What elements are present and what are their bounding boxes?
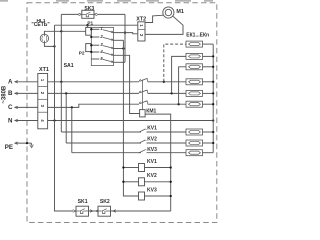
XT2 pin 2 [139,34,144,37]
arrow phase C [15,106,18,109]
wire SK3 right [97,13,125,15]
SA1 bus junction [90,51,92,53]
SA1 section P2 box [86,44,92,52]
arrow SK1 left [73,210,76,213]
wire to XT2 pin1 [55,24,138,26]
wire EK3 right [203,66,214,68]
wire SK1-SK2 [89,210,99,212]
junction bus [212,103,214,105]
heater EK8 [186,140,203,146]
decor top-edge remnants [0,0,213,2]
svg-text:SK1: SK1 [78,199,88,205]
wire phase C lead-in [15,106,38,108]
SA1 contact 3 [91,44,99,46]
wire row B right [148,92,186,94]
KV2 contact [139,140,146,143]
label ~380V supply [1,85,7,104]
wire EK2 right [203,55,214,57]
relay coil KV3 [139,192,145,200]
XT1 pin 2 [40,92,45,95]
wire EK1 feed dashed [164,44,186,82]
arrow SK3 left [79,13,82,16]
wire PE [15,142,32,144]
svg-text:KV3: KV3 [147,187,157,193]
wire KV1 row right [147,131,186,133]
relay coil KV2 [139,178,145,186]
junction lamp-line/A-vertical [60,30,62,32]
svg-text:P2: P2 [79,51,85,56]
svg-text:M1: M1 [176,9,184,15]
motor M1 [163,7,174,18]
KV1 contact [139,129,146,132]
wire EK2 feed [172,56,186,93]
wire row C with jog [48,104,139,107]
heater EK9 [186,150,203,156]
svg-text:"СЕТЬ": "СЕТЬ" [31,22,50,28]
heater EK1 [186,41,203,47]
svg-text:3: 3 [40,105,45,108]
relay coil KV1 [139,164,145,172]
KV3 contact [139,150,146,153]
lamp HL1 [40,34,48,42]
svg-text:P1: P1 [87,21,93,26]
riser C to KV3 row [71,107,73,152]
junction PE-enclosure [26,142,28,144]
svg-text:PE: PE [5,144,13,151]
wire XT2:1 to motor [145,15,163,22]
svg-text:~380В: ~380В [1,85,7,104]
heater EK3 [186,64,203,70]
SA1 contact 1 [91,28,99,30]
svg-text:2: 2 [139,34,144,37]
svg-text:3: 3 [100,42,103,47]
heater EK2 [186,53,203,59]
junction coil KV1 left [122,166,124,168]
arrow phase A [15,81,18,84]
svg-text:5: 5 [100,56,103,61]
svg-text:SK3: SK3 [84,6,94,12]
junction coil KV2 left [122,181,124,183]
svg-text:KV2: KV2 [147,136,157,142]
thermal switch SK3 [82,10,94,18]
arrow SK2 left [96,210,99,213]
junction bus [212,55,214,57]
svg-text:KV1: KV1 [147,125,157,131]
KM1 contact phase C [139,102,141,104]
wire EK8 right [203,142,214,144]
SA1 frame [91,27,113,65]
junction B/EK2 riser [170,92,172,94]
wire EK1 right [203,43,214,45]
svg-text:XT1: XT1 [39,67,49,73]
svg-text:SA1: SA1 [64,63,74,69]
wire phase B lead-in [15,92,38,94]
svg-text:C: C [8,104,13,111]
junction arm2/arm3 [122,47,124,49]
junction A/vertical [60,81,62,83]
junction N-line/P1 feed [86,24,88,26]
wire XT2:2 to motor [145,16,183,34]
wire neutral row [48,120,214,122]
junction coil KV2 right [170,181,172,183]
junction SK3-drop/fan line [124,31,126,33]
SA1 arm3 output [113,48,123,50]
wire SK3 drop [124,14,126,62]
svg-text:4: 4 [99,49,103,54]
wire EK5 right [203,92,214,94]
junction B/riser [65,92,67,94]
KM1 contact phase A [139,79,141,81]
junction N/right bus [212,119,214,121]
terminal block XT2 [138,22,145,41]
XT1 pin 1 [40,79,45,82]
wire KV2 row right [147,142,186,144]
wire KV3 row [72,152,141,154]
wire SK2 right [111,210,171,212]
junction N/lamp riser [53,119,55,121]
svg-text:2: 2 [40,92,45,95]
wire KV3 row right [147,152,186,154]
junction bus [212,92,214,94]
thermostat SK1 [76,206,89,216]
svg-text:KV3: KV3 [147,147,157,153]
svg-text:1: 1 [40,79,45,82]
wire neutral lead-in [15,120,38,122]
arrow SK2 right [113,210,116,213]
right return bus [212,44,214,153]
wire row A [48,81,139,83]
wire phase A lead-in [15,81,38,83]
SA1 arm2 output [113,39,123,41]
heater EK7 [186,129,203,135]
wire EK4 right [203,81,214,83]
junction bus [212,142,214,144]
wire KV1 row [62,131,142,133]
wire KV2 row [66,142,141,144]
XT1 pin 4 [40,119,45,122]
terminal block XT1 [38,74,48,129]
SA1 contact 2 [91,36,99,38]
enclosure dashed border [27,3,217,223]
svg-text:N: N [8,117,13,124]
heater EK5 [186,90,203,96]
arrow SK3 right [94,13,97,16]
wire EK9 right [203,152,214,154]
junction C/riser [71,106,73,108]
KM1 linkage [141,80,143,110]
junction bus [212,131,214,133]
junction coil KV3 right [170,195,172,197]
junction bus [212,66,214,68]
coil KM1 [140,110,146,117]
junction C/EK3 riser [177,103,179,105]
XT1 pin 3 [40,105,45,108]
svg-text:2: 2 [99,34,103,39]
junction coil KV1 right [170,166,172,168]
junction bus [212,81,214,83]
svg-text:SK2: SK2 [100,199,110,205]
wire row B [48,92,139,94]
wire KM1 coil right [145,114,171,211]
SA1 bus junction [90,28,92,30]
wire row A right [148,81,186,83]
SA1 arm1 output to XT2 pin2 [113,33,137,34]
svg-text:4: 4 [40,119,45,122]
SA1 arm5 output [113,61,125,63]
thermostat SK2 [98,206,111,216]
svg-text:ЕК1...ЕКn: ЕК1...ЕКn [186,33,209,39]
svg-text:B: B [8,90,13,97]
arrow PE [15,142,18,145]
riser A to KV1 row [60,82,62,132]
wire N riser [55,25,74,211]
SA1 contact 5 [91,58,99,60]
ground symbol [29,143,33,148]
wire EK6 right [203,103,214,105]
junction lamp/N-riser [53,45,55,47]
SA1 feed drop [87,25,89,27]
SA1 bus junction [90,36,92,38]
svg-text:1: 1 [139,24,144,27]
SA1 section P1 box [86,27,92,35]
arrow SK1 right [90,210,93,213]
svg-text:A: A [8,78,13,85]
vertical SK3-to-A [60,14,62,81]
riser B to KV2 row [65,93,67,143]
wire lamp top [44,31,85,34]
arrow neutral N [15,119,18,122]
wire EK3 feed [179,67,186,104]
arrow phase B [15,92,18,95]
SA1 bus junction [90,44,92,46]
wire row C right [148,103,186,105]
wire EK7 right [203,131,214,133]
heater EK6 [186,101,203,107]
SA1 arm2-3 drop to KV coils [123,40,138,196]
XT2 pin 1 [139,24,144,27]
svg-text:KV1: KV1 [147,159,157,165]
svg-text:KV2: KV2 [147,173,157,179]
wire lamp bottom [44,43,54,47]
junction A/EK1 riser [163,81,165,83]
KM1 contact phase B [139,91,141,93]
heater EK4 [186,79,203,85]
svg-text:1: 1 [100,26,103,31]
SA1 contact 4 [91,51,99,53]
wire SK3 left [61,13,79,15]
SA1 arm4 output to KM1 coil [113,55,139,113]
